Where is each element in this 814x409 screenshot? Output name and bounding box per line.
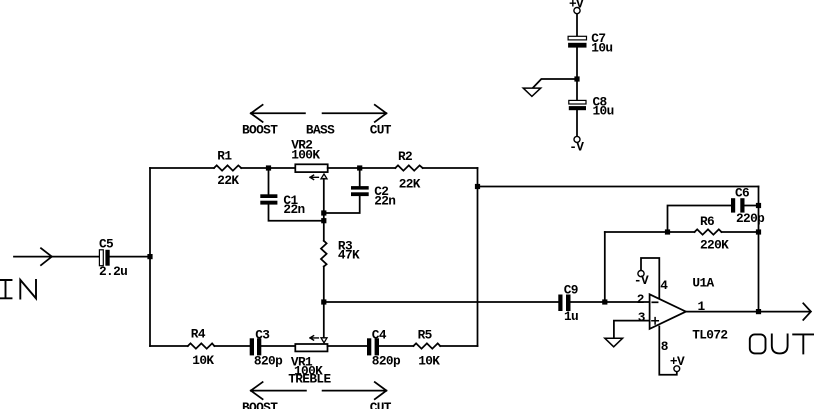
svg-text:22K: 22K [399,177,421,192]
svg-text:BOOST: BOOST [242,400,278,409]
svg-text:2.2u: 2.2u [99,264,127,279]
op-amp U1A triangle [650,294,686,329]
VR2 wiper [321,174,327,179]
svg-text:10K: 10K [418,354,440,369]
wire VR1 wiper lead [323,302,325,337]
wire pin3 to ground [614,321,650,338]
terminal +V op-amp [674,366,680,372]
svg-text:R6: R6 [700,214,714,229]
svg-text:C5: C5 [99,237,114,252]
svg-text:10K: 10K [192,353,214,368]
node C2 bottom [321,210,326,215]
wire right rail [477,168,479,346]
wire VR2 to R2 [328,167,396,169]
wire C3 to VR1 [261,345,295,347]
potentiometer VR1 body [295,344,327,351]
svg-text:10u: 10u [593,104,614,119]
svg-text:+V: +V [670,354,685,369]
capacitor C2 [351,186,369,196]
resistor R1 [214,165,241,170]
capacitor C9 [558,295,570,312]
svg-text:2: 2 [637,292,644,307]
svg-text:22n: 22n [283,202,304,217]
wire middle row to C9 [324,301,559,303]
svg-text:R2: R2 [398,149,412,164]
svg-text:TREBLE: TREBLE [288,372,331,387]
capacitor C4 [367,338,379,355]
wire input line [14,256,99,258]
wire R3 bottom [323,267,325,303]
treble cut arrow [323,382,387,399]
op-amp plus [652,318,658,324]
wire R2 to right rail [423,167,478,169]
wire C5 to left rail [110,256,150,258]
wire wiper column [323,179,325,241]
wire pin8 to +V [659,327,677,375]
wire +V supply lead [576,14,578,37]
VR1 wiper adjust arrow [310,336,318,340]
op-amp minus [652,301,657,303]
node R3 bottom / mid row [321,299,326,304]
svg-text:TL072: TL072 [692,328,727,343]
wire R5 to right rail [440,345,477,347]
wire R6 left drop [604,232,606,302]
svg-text:-V: -V [634,273,649,288]
terminal -V supply [574,136,580,142]
resistor R3 [321,241,327,267]
capacitor C5 [99,250,109,266]
treble boost arrow [251,382,306,399]
resistor R4 [188,343,215,348]
ground at pin3 [605,338,623,347]
bass boost arrow [251,105,305,122]
svg-text:CUT: CUT [370,123,392,138]
svg-text:3: 3 [638,310,646,325]
terminal -V op-amp [638,271,644,277]
node R1/VR2/C1 [266,165,271,170]
node C1 bottom [321,218,326,223]
wire C8 to -V [576,110,578,136]
output arrowhead [803,303,811,320]
svg-text:U1A: U1A [692,276,714,291]
node C6 right [756,203,761,208]
potentiometer VR2 body [295,164,327,172]
wire op-amp output [686,311,811,313]
svg-text:+V: +V [569,0,584,12]
node feedback branch [475,184,480,189]
IN label [0,280,36,299]
capacitor C3 [250,338,262,355]
svg-text:C4: C4 [372,327,387,342]
svg-text:22n: 22n [374,193,395,208]
svg-text:C9: C9 [564,282,578,297]
ground at supply [523,88,541,96]
svg-text:820p: 820p [254,354,283,369]
svg-text:10u: 10u [591,40,612,55]
svg-text:22K: 22K [217,173,239,188]
node: input junction [147,254,152,259]
resistor R5 [413,343,440,348]
svg-text:CUT: CUT [370,400,392,409]
wire top row left [150,167,214,169]
wire C6 left lead [668,206,732,233]
svg-text:C6: C6 [735,186,749,201]
resistor R2 [395,165,422,170]
wire left rail [149,168,151,346]
wire C9 to op-amp pin2 [571,301,650,303]
svg-text:R4: R4 [191,327,206,342]
wire bottom row left [150,345,188,347]
node C6/R6 left [665,229,670,234]
svg-text:220p: 220p [736,211,765,226]
VR1 wiper [321,338,327,343]
capacitor C8 [569,100,586,110]
svg-text:220K: 220K [700,238,729,253]
wire R1 to VR2 [241,167,295,169]
wire VR1 to C4 [328,345,368,347]
svg-text:1u: 1u [564,309,578,324]
wire R6 row left [605,231,695,233]
svg-text:C3: C3 [255,327,270,342]
node output [756,309,761,314]
svg-text:BOOST: BOOST [242,123,278,138]
wire C6 right lead [745,205,759,207]
wire pin4 to -V [641,258,659,298]
wire C4 to R5 [379,345,413,347]
node R6 right [756,229,761,234]
VR2 wiper adjust arrow [310,175,318,179]
svg-text:R5: R5 [418,327,433,342]
terminal +V supply [574,8,580,14]
svg-text:820p: 820p [372,354,401,369]
capacitor C6 [731,198,745,212]
resistor R6 [695,229,722,234]
capacitor C7 [568,36,586,47]
bass cut arrow [323,105,387,122]
OUT label [750,334,814,353]
svg-text:1: 1 [698,299,706,314]
wire R4 to C3 [214,345,249,347]
wire feedback right rail [758,187,760,312]
node C2 top [357,165,362,170]
node pin2 [602,299,607,304]
svg-text:4: 4 [660,278,668,293]
wire supply ground lead [533,79,577,88]
svg-text:R1: R1 [217,149,232,164]
svg-text:100K: 100K [291,147,320,162]
capacitor C2 leads [324,168,360,213]
node supply mid [574,76,579,81]
svg-text:47K: 47K [338,248,360,263]
wire feedback top [478,186,759,188]
wire R6 right [722,231,759,233]
svg-text:-V: -V [569,139,584,154]
capacitor C1 [260,194,277,204]
wire C7 to C8 [576,48,578,101]
svg-text:BASS: BASS [306,123,335,138]
svg-text:8: 8 [661,339,668,354]
capacitor C1 leads [269,168,324,221]
input arrowhead [41,248,52,265]
